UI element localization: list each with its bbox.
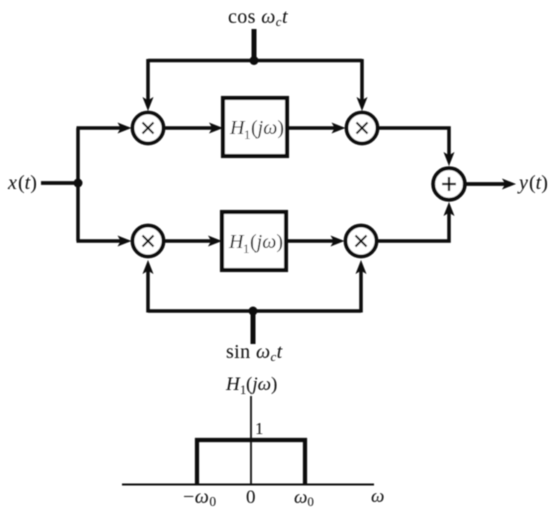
label H1(jw) plot title xyxy=(225,374,277,397)
plot horizontal axis xyxy=(122,484,374,486)
wire multiplier to top box xyxy=(164,126,214,130)
node cos junction xyxy=(250,56,259,65)
svg-text:ω: ω xyxy=(371,486,384,507)
wire multiplier to bottom box xyxy=(164,239,213,243)
label 0 xyxy=(246,487,256,508)
svg-text:cos ωct: cos ωct xyxy=(228,6,288,29)
svg-text:−ω0: −ω0 xyxy=(183,486,217,508)
wire top box to right multiplier xyxy=(287,126,337,130)
svg-text:H: H xyxy=(225,374,241,395)
filter box H1 bottom xyxy=(222,212,286,270)
wire sin bus xyxy=(148,309,361,313)
svg-text:y: y xyxy=(517,172,528,194)
label -w0 xyxy=(183,486,217,508)
wire sin stem xyxy=(251,311,256,344)
wire summer output xyxy=(467,182,509,186)
svg-text:(jω): (jω) xyxy=(251,117,284,139)
svg-text:0: 0 xyxy=(246,487,256,508)
multiplier bottom-left xyxy=(133,226,164,257)
wire bottom box to right multiplier xyxy=(286,239,336,243)
wire x(t) lead xyxy=(41,181,80,185)
svg-text:(t): (t) xyxy=(529,172,548,194)
label x(t) xyxy=(7,172,37,194)
svg-text:(jω): (jω) xyxy=(246,374,277,395)
multiplier top-left xyxy=(133,113,164,144)
label cos wct xyxy=(228,6,288,29)
multiplier top-right xyxy=(347,113,378,144)
multiplier bottom-right xyxy=(346,226,377,257)
wire input split vertical xyxy=(76,128,80,241)
svg-text:x: x xyxy=(7,172,17,194)
label w0 xyxy=(294,487,314,508)
label sin wct xyxy=(226,341,283,364)
wire sin-left rise xyxy=(146,269,150,313)
node input junction xyxy=(74,179,83,188)
svg-text:1: 1 xyxy=(255,419,264,438)
wire sin-right rise xyxy=(359,269,363,313)
wire top bus xyxy=(148,59,362,63)
wire right multiplier to summer (bottom path) xyxy=(378,211,450,241)
svg-text:ω0: ω0 xyxy=(294,487,314,508)
filter box H1 top xyxy=(223,98,287,156)
summer xyxy=(433,168,465,200)
label w axis xyxy=(371,486,384,507)
wire to top multiplier xyxy=(77,126,123,130)
label 1 xyxy=(255,419,264,438)
plot filter rectangle xyxy=(197,440,305,485)
svg-text:1: 1 xyxy=(244,127,251,142)
wire to bottom multiplier xyxy=(77,239,123,243)
label y(t) xyxy=(517,172,548,194)
wire top-right drop xyxy=(360,59,364,103)
svg-text:1: 1 xyxy=(243,241,250,256)
svg-text:(t): (t) xyxy=(18,172,37,194)
wire top-left drop xyxy=(146,59,150,103)
wire right multiplier to summer (top path) xyxy=(379,128,450,157)
wire cos stem xyxy=(252,29,257,62)
node sin junction xyxy=(249,307,258,316)
svg-text:sin ωct: sin ωct xyxy=(226,341,283,364)
plot vertical axis xyxy=(250,396,252,485)
svg-text:(jω): (jω) xyxy=(250,231,283,253)
